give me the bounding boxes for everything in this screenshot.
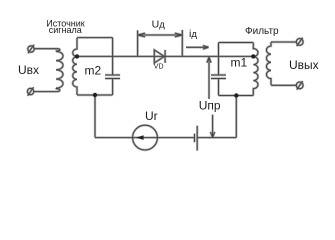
- svg-text:Uпр: Uпр: [199, 99, 221, 113]
- svg-text:сигнала: сигнала: [49, 25, 82, 35]
- svg-text:iд: iд: [189, 28, 197, 40]
- svg-text:m1: m1: [231, 56, 248, 70]
- svg-text:VD: VD: [154, 64, 164, 71]
- svg-text:Фильтр: Фильтр: [245, 26, 279, 37]
- svg-text:Uвх: Uвх: [18, 63, 39, 77]
- svg-text:Uд: Uд: [152, 18, 166, 30]
- svg-text:Uвых: Uвых: [289, 58, 319, 72]
- svg-text:Ur: Ur: [145, 109, 158, 123]
- svg-text:m2: m2: [85, 63, 102, 77]
